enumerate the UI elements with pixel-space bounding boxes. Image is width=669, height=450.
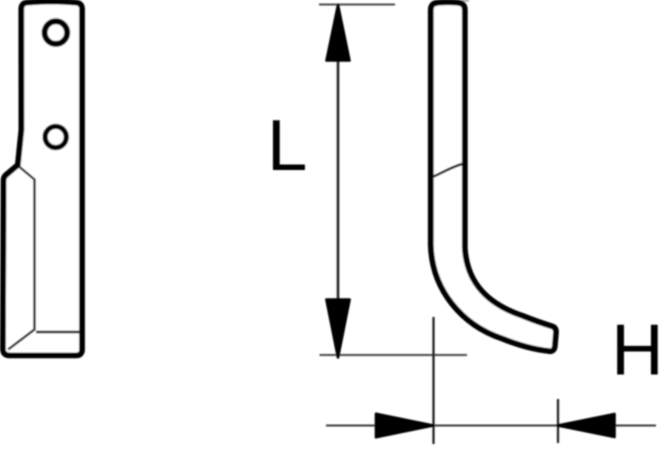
svg-text:H: H <box>611 310 663 391</box>
svg-text:L: L <box>267 105 307 186</box>
